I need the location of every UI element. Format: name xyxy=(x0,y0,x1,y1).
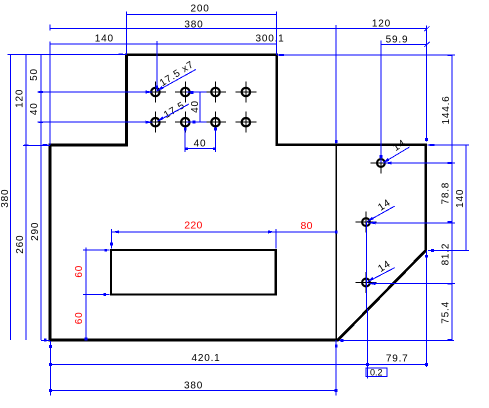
dot x336.2 above shoulder xyxy=(335,140,338,143)
dim line 380 bottom xyxy=(50,389,336,391)
svg-text:120: 120 xyxy=(372,19,391,30)
leader text 17.5 xyxy=(162,100,187,121)
leader 17.5x7 xyxy=(158,70,196,91)
construction line at x=336 xyxy=(335,145,337,340)
dot x336.2 below corner xyxy=(335,345,338,348)
svg-text:144.6: 144.6 xyxy=(441,95,452,124)
ext line y145.3 left xyxy=(23,144,50,146)
dim text 75.4 right xyxy=(440,301,451,324)
svg-text:50: 50 xyxy=(29,68,40,81)
arrowhead leader 14B xyxy=(367,217,374,222)
arrowhead hole B ext xyxy=(368,221,376,224)
ext line y222.8 hole B xyxy=(368,222,455,224)
svg-text:60: 60 xyxy=(74,312,85,325)
hole right A xyxy=(370,153,391,174)
dot x426.4 below chamfer corner xyxy=(425,255,428,258)
svg-text:79.7: 79.7 xyxy=(386,354,409,365)
dot slot ext left xyxy=(104,249,107,252)
ext line y54.7 left xyxy=(7,54,126,56)
dot y340 left stub xyxy=(44,339,47,342)
dim text 81.2 right xyxy=(441,243,452,266)
svg-text:260: 260 xyxy=(15,235,26,254)
dot 60 dim bottom xyxy=(84,337,87,340)
ext line y250.3 chamfer corner xyxy=(428,249,469,251)
tick on y145.2 right corner xyxy=(430,144,435,146)
dim line 144.6+78.8+81.2+75.4 right xyxy=(451,55,453,340)
svg-text:140: 140 xyxy=(95,34,114,45)
ext line x50.3 bottom xyxy=(49,341,51,395)
ext line y122.2 to hole row2 xyxy=(38,121,152,123)
svg-text:200: 200 xyxy=(191,4,210,15)
leader text 17.5 x7 xyxy=(158,59,196,89)
ext line x276.6 xyxy=(276,12,278,55)
dot x50.3 below corner xyxy=(49,345,52,348)
stub y92 right of holes xyxy=(187,91,207,93)
hole r2c3 xyxy=(205,112,226,133)
hole r1c3 xyxy=(205,82,226,103)
ext line x50 top xyxy=(49,42,51,146)
ext x111.3 above slot xyxy=(110,229,112,248)
dim line 140+300.1 xyxy=(50,43,277,45)
dim text 50 left xyxy=(29,68,40,81)
dot above hole A xyxy=(380,155,383,158)
tick on y54.7 near corner xyxy=(118,53,123,55)
slot rectangle xyxy=(111,250,276,295)
svg-text:80: 80 xyxy=(300,220,312,232)
dot y340.4 right of bottom corner xyxy=(340,339,343,342)
hole r2c2 xyxy=(175,112,196,133)
dot x111.3 above slot xyxy=(110,243,113,246)
dots bottom dim 420.1/79.7 xyxy=(49,363,52,366)
ext line y163 hole A xyxy=(385,162,456,164)
arrowheads 220 dim xyxy=(112,230,119,233)
ext verticals 40 bottom cols xyxy=(184,128,186,152)
tick x367.4 at bottom dim xyxy=(366,309,368,379)
dash on y145.3 at x26 arrow xyxy=(24,144,29,146)
dim line 200 xyxy=(127,14,277,16)
dim line 59.9 xyxy=(381,43,427,45)
arrowhead hole C ext xyxy=(368,282,376,285)
svg-text:60: 60 xyxy=(74,265,85,278)
dim text 60 red lower xyxy=(74,312,85,325)
dim text 260 left xyxy=(15,235,26,254)
leader 14 hole B xyxy=(368,206,395,221)
plate outline xyxy=(50,55,426,340)
ext line x336 upper xyxy=(335,25,337,144)
arrowhead hole r2c1 xyxy=(146,121,154,124)
ext line x426.6 xyxy=(426,26,428,142)
dim line 50+40+290 left xyxy=(40,55,42,340)
hole right C xyxy=(356,272,377,293)
dim line 420.1+79.7 xyxy=(50,363,426,365)
ext line y340.4 bottom right xyxy=(339,339,454,341)
leader text 14 hole B xyxy=(376,197,393,213)
svg-text:40: 40 xyxy=(29,102,40,115)
dim line 380+120 top xyxy=(50,28,427,30)
dim line 140 right xyxy=(465,145,467,250)
ext line x381 to hole A xyxy=(380,41,382,163)
dim line 60+60 vertical xyxy=(85,248,87,340)
dim text 120 left xyxy=(15,89,26,108)
dim text 78.8 right xyxy=(440,182,451,205)
slash marks at x427 row ends xyxy=(424,26,429,31)
svg-text:380: 380 xyxy=(184,380,203,391)
svg-text:78.8: 78.8 xyxy=(440,182,451,205)
dot 40dim row2 xyxy=(192,121,195,124)
ext line y283.6 hole C xyxy=(369,283,456,285)
svg-text:40: 40 xyxy=(194,139,207,150)
dim text 380 left xyxy=(0,189,11,208)
hole r1c4 xyxy=(235,82,256,103)
svg-text:140: 140 xyxy=(455,189,466,208)
dim line 40 vertical between rows xyxy=(199,92,201,122)
ext line x336 lower xyxy=(335,340,337,396)
dots 40 bottom dim xyxy=(185,147,188,150)
dim text 140 right xyxy=(455,189,466,208)
tick dash y92 on x41 xyxy=(39,91,44,93)
ext line x126.6 xyxy=(126,12,128,55)
svg-text:40: 40 xyxy=(190,100,201,113)
ext line x157 to hole xyxy=(156,41,158,92)
ext y250.1 to slot corner xyxy=(83,249,110,251)
dim text 144.6 right xyxy=(441,95,452,124)
hole r2c4 xyxy=(235,112,256,133)
ext vertical x426.4 below chamfer corner xyxy=(425,251,427,368)
leader 14 hole C xyxy=(368,268,395,282)
arrowhead leader 14C xyxy=(367,277,374,282)
dim line 380 left xyxy=(9,55,11,340)
svg-text:75.4: 75.4 xyxy=(440,301,451,324)
stub y122.2 right of holes xyxy=(187,121,207,123)
dot y250.3 right of chamfer corner xyxy=(431,249,434,252)
leader text 14 hole A xyxy=(391,138,408,154)
hole right B xyxy=(356,212,377,233)
ext vertical x366.6 hole column xyxy=(365,222,367,309)
dots dim 380 bottom ends xyxy=(49,389,52,392)
leader text 14 hole C xyxy=(376,259,393,275)
dim line 40 bottom xyxy=(185,148,215,150)
svg-text:220: 220 xyxy=(184,220,202,232)
svg-text:300.1: 300.1 xyxy=(255,34,284,45)
arrowhead leader 17.5 xyxy=(157,116,164,121)
hole r1c2 xyxy=(175,82,196,103)
leader 14 hole A xyxy=(384,147,410,163)
tick on y55.2 right of corner xyxy=(279,54,284,56)
dim text 40 between hole rows xyxy=(190,100,201,113)
dot above hole r1c1 xyxy=(155,86,158,89)
arrow dots and ticks xyxy=(24,53,452,392)
arrowhead hole r1c1 xyxy=(146,91,154,94)
stub y340.3 to bottom-left corner xyxy=(41,339,50,341)
dot 40dim row1 xyxy=(191,91,194,94)
dim text 290 left xyxy=(30,222,41,241)
basic dim frame 0.2 xyxy=(366,368,387,377)
svg-text:120: 120 xyxy=(15,89,26,108)
hole r1c1 xyxy=(145,82,166,103)
arrowhead hole A ext xyxy=(384,162,392,165)
svg-text:420.1: 420.1 xyxy=(191,353,220,364)
dashes on right dim line x451.9 xyxy=(447,162,452,164)
ext x275.8 above slot xyxy=(275,229,277,248)
dim text 40 left xyxy=(29,102,40,115)
dot x426.6 above shoulder xyxy=(425,138,428,141)
dim line 120+260 left xyxy=(25,55,27,340)
tick on y145.3 near left corner xyxy=(43,144,48,146)
arrowhead leader 17.5x7 xyxy=(156,86,163,91)
leader 17.5 xyxy=(158,104,189,121)
ext line x50 top tick xyxy=(49,25,51,31)
arrowhead leader 14A xyxy=(382,158,389,163)
arrowhead 80 dim right end xyxy=(335,231,338,234)
svg-text:380: 380 xyxy=(0,189,11,208)
ext line y145.2 right xyxy=(428,144,470,146)
hole r2c1 xyxy=(145,112,166,133)
svg-text:81.2: 81.2 xyxy=(441,243,452,266)
ext y294.6 to slot corner xyxy=(83,294,110,296)
dot slot ext mid xyxy=(103,293,106,296)
svg-text:0.2: 0.2 xyxy=(370,367,383,377)
ext line y55.2 right xyxy=(277,54,455,56)
dim text 60 red upper xyxy=(74,265,85,278)
dim line 220+80 xyxy=(111,231,336,233)
ext line y92 to hole row1 xyxy=(38,91,152,93)
svg-text:290: 290 xyxy=(30,222,41,241)
